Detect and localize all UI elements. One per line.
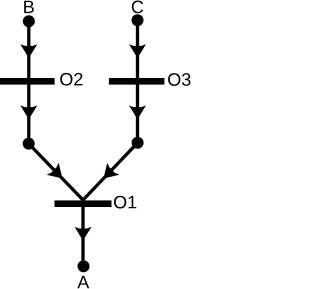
transition O3 (109, 78, 164, 85)
wire O1 to place A (81, 202, 84, 266)
transition O1 (55, 200, 112, 207)
label O3 (168, 73, 190, 86)
arrowhead b1 to O1 (47, 163, 69, 185)
label B (24, 1, 34, 13)
arrowhead B to O2 (20, 44, 37, 58)
place C (132, 14, 144, 26)
place B (23, 15, 35, 27)
arrowhead O1 to A (75, 227, 92, 241)
wire O3 to place b2 (136, 80, 139, 143)
arrowhead C to O3 (129, 44, 146, 58)
wire O2 to place b1 (27, 80, 30, 144)
wire b2 to O1 (83, 143, 138, 200)
place b2 (132, 137, 144, 149)
wire b1 to O1 (29, 144, 83, 200)
label O2 (60, 73, 82, 86)
transition O2 (0, 78, 55, 85)
place A (78, 260, 90, 272)
label C (132, 1, 143, 14)
arrowhead O3 to b2 (129, 105, 146, 119)
place b1 (23, 138, 35, 150)
wire C to O3 (136, 20, 139, 84)
arrowhead O2 to b1 (20, 105, 37, 119)
wire B to O2 (27, 21, 30, 84)
label A (77, 276, 89, 288)
label O1 (114, 196, 136, 209)
arrowhead b2 to O1 (97, 163, 119, 185)
